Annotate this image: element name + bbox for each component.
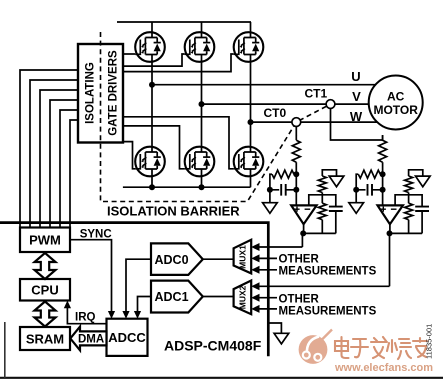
svg-text:MUX1: MUX1: [237, 245, 247, 269]
svg-text:AC: AC: [387, 90, 405, 104]
svg-text:IRQ: IRQ: [75, 312, 96, 324]
svg-text:www.elecfans.com: www.elecfans.com: [334, 362, 433, 374]
svg-text:PWM: PWM: [29, 233, 61, 248]
svg-text:OTHER: OTHER: [279, 294, 320, 306]
svg-text:W: W: [350, 109, 363, 124]
svg-text:U: U: [351, 69, 360, 84]
svg-text:CPU: CPU: [31, 283, 58, 298]
svg-text:MEASUREMENTS: MEASUREMENTS: [279, 306, 377, 318]
svg-text:OTHER: OTHER: [279, 254, 320, 266]
svg-text:CT0: CT0: [264, 106, 287, 120]
svg-text:MOTOR: MOTOR: [373, 103, 418, 117]
svg-text:ISOLATING: ISOLATING: [85, 62, 97, 124]
svg-text:ADCC: ADCC: [108, 330, 146, 345]
svg-text:11835-001: 11835-001: [425, 324, 434, 359]
svg-text:ISOLATION BARRIER: ISOLATION BARRIER: [107, 204, 240, 219]
svg-text:ADC1: ADC1: [155, 290, 189, 304]
svg-text:MEASUREMENTS: MEASUREMENTS: [279, 266, 377, 278]
svg-text:CT1: CT1: [305, 87, 328, 101]
svg-text:ADSP-CM408F: ADSP-CM408F: [164, 338, 262, 354]
svg-text:SRAM: SRAM: [26, 332, 64, 347]
svg-text:DMA: DMA: [78, 334, 104, 346]
svg-text:SYNC: SYNC: [80, 229, 112, 241]
svg-text:MUX2: MUX2: [237, 285, 247, 309]
svg-text:V: V: [352, 89, 361, 104]
svg-text:GATE DRIVERS: GATE DRIVERS: [108, 50, 120, 136]
svg-text:ADC0: ADC0: [155, 253, 189, 267]
